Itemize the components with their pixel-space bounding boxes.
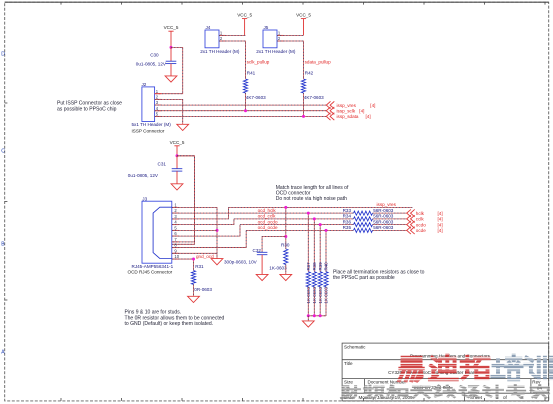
- off-page connector issp_sdata: [326, 113, 370, 120]
- ground rail wire: [307, 314, 326, 317]
- svg-text:1: 1: [278, 31, 281, 36]
- svg-text:3: 3: [174, 214, 177, 219]
- svg-text:R31: R31: [195, 264, 204, 269]
- svg-text:ocde: ocde: [416, 228, 426, 233]
- svg-text:to GND (Default) or keep them: to GND (Default) or keep them isolated.: [125, 321, 214, 327]
- net label ocd_hclk: [258, 208, 277, 213]
- wire net issp_sclk (J2 pin4): [155, 110, 327, 112]
- wire J4 pin1 to VCC_5: [219, 34, 246, 36]
- svg-text:2: 2: [220, 36, 223, 41]
- svg-text:sdata_pullup: sdata_pullup: [305, 59, 331, 64]
- J3 pin 10: [172, 254, 180, 259]
- J2 pin 5: [155, 112, 162, 117]
- off-page connector issp_sclk: [326, 107, 364, 114]
- wire net issp_sdata (J2 pin5): [155, 115, 327, 117]
- wire J3 pin3 jog to issp_vres: [172, 207, 228, 218]
- svg-text:gnd_ocd: gnd_ocd: [196, 254, 214, 259]
- title block: [342, 343, 549, 401]
- power symbol VCC_5 (C30): [164, 25, 179, 47]
- wire ocde to off-page: [373, 229, 407, 231]
- J2 pin 1: [155, 89, 162, 94]
- svg-text:J2: J2: [142, 82, 147, 87]
- wire R39 to ground rail: [319, 287, 321, 316]
- svg-text:VCC_5: VCC_5: [170, 140, 185, 145]
- svg-text:56R-0603: 56R-0603: [373, 219, 394, 224]
- wire rail to ground: [307, 316, 309, 321]
- resistor R42 4K7-0603: [301, 71, 324, 101]
- svg-text:ocd_ocdo: ocd_ocdo: [258, 219, 278, 224]
- svg-text:8: 8: [174, 243, 177, 248]
- svg-text:D: D: [1, 52, 5, 58]
- svg-text:300p-0603, 10V: 300p-0603, 10V: [224, 259, 258, 264]
- J5 pin 1: [277, 31, 284, 36]
- resistor R30 1K-0603: [269, 242, 290, 270]
- connector J4 2x1 TH Header (M): [200, 25, 240, 54]
- svg-text:RJ45-AMP556341-1: RJ45-AMP556341-1: [132, 264, 174, 269]
- net label sclk_pullup: [247, 59, 270, 64]
- svg-text:hclk: hclk: [416, 211, 425, 216]
- J3 pin 1: [172, 203, 179, 208]
- svg-text:2x1 TH Header (M): 2x1 TH Header (M): [256, 49, 296, 54]
- ground (R31): [188, 296, 200, 302]
- wire net issp_vres (OCD): [228, 206, 412, 208]
- svg-text:R42: R42: [305, 71, 314, 76]
- svg-text:R36: R36: [343, 219, 352, 224]
- svg-text:ocdo: ocdo: [416, 222, 426, 227]
- net label gnd_ocd: [196, 254, 214, 259]
- ground (termination bank): [302, 321, 314, 327]
- off-page connector ocd_ocde: [407, 227, 443, 234]
- svg-text:[4]: [4]: [366, 114, 371, 119]
- ground (J2 pin2): [177, 124, 189, 130]
- capacitor C30: [136, 47, 177, 76]
- svg-text:9: 9: [174, 248, 177, 253]
- wire C32 riser: [262, 237, 286, 253]
- J3 pin 7: [172, 237, 179, 242]
- svg-text:ocd_cclk: ocd_cclk: [258, 214, 277, 219]
- svg-text:R34: R34: [343, 214, 352, 219]
- wire J3 pin6 jog to ocd_ocdo: [172, 225, 240, 236]
- svg-text:C31: C31: [158, 162, 167, 167]
- svg-text:7: 7: [174, 237, 177, 242]
- wire R30 riser (issp_vres to R30): [284, 206, 287, 249]
- off-page connector ocd_cclk: [407, 215, 443, 222]
- resistor R39 1K-0603: [318, 262, 323, 304]
- svg-text:cclk: cclk: [416, 217, 425, 222]
- wire J5 pin1 to VCC_5: [277, 34, 304, 36]
- svg-text:1: 1: [156, 89, 159, 94]
- wire riser R40: [325, 229, 328, 272]
- wire net issp_vres (J2 pin3): [155, 104, 327, 106]
- svg-text:[4]: [4]: [438, 228, 443, 233]
- J3 pin 4: [172, 220, 179, 225]
- svg-text:ISSP Connector: ISSP Connector: [132, 129, 165, 134]
- wire J3 pin10 net gnd_ocd: [172, 258, 194, 260]
- J2 pin 3: [155, 100, 162, 105]
- watermark: [342, 356, 552, 399]
- wire cclk to off-page: [373, 218, 407, 220]
- svg-text:2: 2: [278, 36, 281, 41]
- svg-text:OCD RJ45 Connector: OCD RJ45 Connector: [128, 270, 173, 275]
- svg-text:0u1-0805, 12V: 0u1-0805, 12V: [128, 173, 159, 178]
- J3 pin 8: [172, 243, 179, 248]
- wire J3 pin1 to ground riser: [172, 207, 217, 258]
- svg-text:1: 1: [174, 203, 177, 208]
- svg-text:issp_vres: issp_vres: [337, 103, 357, 108]
- wire J5 pin2 to R42: [277, 41, 304, 79]
- svg-text:Rev: Rev: [532, 380, 541, 385]
- svg-text:4K7-0603: 4K7-0603: [246, 95, 266, 100]
- resistor R38 1K-0603: [312, 262, 317, 304]
- svg-text:VCC_5: VCC_5: [237, 13, 252, 18]
- J3 pin 9: [172, 248, 179, 253]
- resistor R37 1K-0603: [306, 262, 311, 304]
- svg-text:J3: J3: [142, 197, 147, 202]
- svg-text:[4]: [4]: [438, 211, 443, 216]
- svg-text:0u1-0805, 12V: 0u1-0805, 12V: [136, 61, 167, 66]
- junction C31/VCC: [176, 154, 179, 157]
- power symbol VCC_5 (C31): [170, 140, 185, 156]
- wire R41 to issp_sclk: [244, 93, 247, 112]
- wire R37 to ground rail: [307, 287, 309, 316]
- svg-text:J4: J4: [206, 25, 211, 30]
- svg-text:[4]: [4]: [359, 108, 364, 113]
- svg-text:0R-0603: 0R-0603: [194, 287, 212, 292]
- svg-text:VCC_5: VCC_5: [164, 25, 179, 30]
- svg-text:1K-0603: 1K-0603: [269, 265, 287, 270]
- off-page connector ocd_ocdo: [407, 221, 443, 228]
- J3 pin 3: [172, 214, 179, 219]
- resistor R31 0R-0603: [191, 264, 212, 292]
- note: place termination resistors close: [333, 269, 425, 281]
- svg-text:Schematic: Schematic: [344, 344, 366, 349]
- svg-text:VCC_5: VCC_5: [296, 13, 311, 18]
- svg-text:R39: R39: [318, 262, 323, 271]
- svg-text:the PPSoC part as possible: the PPSoC part as possible: [333, 275, 395, 281]
- J3 pin 6: [172, 231, 179, 236]
- svg-text:2: 2: [174, 208, 177, 213]
- wire hclk to off-page: [373, 212, 407, 214]
- J5 pin 2: [277, 36, 284, 41]
- svg-text:R41: R41: [247, 71, 256, 76]
- svg-text:[4]: [4]: [438, 222, 443, 227]
- svg-text:4: 4: [174, 220, 177, 225]
- svg-text:3: 3: [156, 100, 159, 105]
- off-page connector ocd_hclk: [407, 209, 443, 216]
- wire J3 pin4 jog to ocd_cclk: [172, 219, 234, 225]
- wire VCC junction to J2 pin1: [155, 47, 183, 93]
- svg-text:J5: J5: [264, 25, 269, 30]
- svg-text:4: 4: [156, 106, 159, 111]
- J2 pin 4: [155, 106, 162, 111]
- svg-text:1: 1: [220, 31, 223, 36]
- svg-text:5: 5: [174, 225, 177, 230]
- wire net ocd_ocdo: [240, 224, 354, 226]
- wire R30 to ground: [285, 265, 287, 275]
- svg-text:R30: R30: [281, 242, 290, 247]
- resistor R40 1K-0603: [324, 262, 329, 304]
- resistor R36 56R-0603: [343, 219, 394, 226]
- wire ocdo to off-page: [373, 224, 407, 226]
- svg-text:56R-0603: 56R-0603: [373, 225, 394, 230]
- svg-text:C: C: [1, 149, 5, 155]
- note: match trace length: [276, 185, 349, 202]
- svg-text:4K7-0603: 4K7-0603: [304, 95, 324, 100]
- J4 pin 1: [219, 31, 226, 36]
- wire net ocd_ocde: [246, 229, 353, 231]
- capacitor C32 300p-0603: [224, 248, 267, 274]
- resistor R41 4K7-0603: [243, 71, 266, 101]
- ground (C31): [171, 184, 183, 190]
- note: Put ISSP Connector close to PPSoC: [57, 101, 122, 113]
- svg-text:sclk_pullup: sclk_pullup: [247, 59, 270, 64]
- ground (R30): [280, 274, 292, 280]
- net label ocd_cclk: [258, 214, 277, 219]
- svg-text:10: 10: [174, 254, 179, 259]
- net label issp_vres: [377, 202, 397, 207]
- net label ocd_ocde: [258, 225, 278, 230]
- connector J2 5x1 TH Header (M): [132, 82, 172, 134]
- wire R38 to ground rail: [313, 287, 315, 316]
- svg-text:R37: R37: [306, 262, 311, 271]
- connector J5 2x1 TH Header (M): [256, 25, 296, 54]
- svg-text:6: 6: [174, 231, 177, 236]
- wire J4 pin2 to R41: [219, 41, 246, 79]
- svg-text:5: 5: [156, 112, 159, 117]
- wire R31 to ground: [193, 284, 195, 296]
- svg-text:56R-0603: 56R-0603: [373, 214, 394, 219]
- wire J3 pin9 to ground riser: [172, 252, 217, 254]
- power symbol VCC_5 (J5): [296, 13, 311, 36]
- svg-text:Size: Size: [344, 380, 353, 385]
- off-page connector issp_vres: [326, 101, 375, 108]
- wire gnd_ocd to R31: [192, 258, 195, 271]
- svg-text:5x1 TH Header (M): 5x1 TH Header (M): [132, 122, 172, 127]
- wire net ocd_cclk: [234, 218, 354, 220]
- svg-text:ocd_ocde: ocd_ocde: [258, 225, 278, 230]
- wire VCC to J3 pin8: [172, 156, 194, 245]
- junction C30/VCC: [170, 46, 173, 49]
- svg-text:ocd_hclk: ocd_hclk: [258, 208, 277, 213]
- wire VCC riser to J3 pin7: [172, 156, 194, 242]
- wire net ocd_hclk (J3 pin2): [172, 212, 354, 214]
- svg-text:[4]: [4]: [370, 103, 375, 108]
- J4 pin 2: [219, 36, 226, 41]
- J3 pin 5: [172, 225, 179, 230]
- svg-text:R35: R35: [343, 225, 352, 230]
- svg-text:Title: Title: [344, 361, 353, 366]
- wire J2 pin2 to ground: [155, 99, 183, 124]
- J3 pin 2: [172, 208, 179, 213]
- note: pins 9 and 10 studs: [125, 310, 225, 327]
- svg-text:issp_sclk: issp_sclk: [337, 108, 356, 113]
- svg-text:2: 2: [156, 94, 159, 99]
- wire J3 pin5 to ground riser: [172, 229, 217, 231]
- wire R40 to ground rail: [325, 287, 327, 316]
- junction pin1 riser / pin5: [216, 229, 219, 232]
- ground (J3 studs): [211, 259, 223, 265]
- net label ocd_ocdo: [258, 219, 278, 224]
- ground (C30): [165, 76, 177, 82]
- svg-text:[4]: [4]: [438, 217, 443, 222]
- resistor R35 56R-0603: [343, 225, 394, 232]
- wire R42 to issp_sdata: [302, 93, 305, 118]
- svg-text:Do not route via high noise pa: Do not route via high noise path: [276, 196, 347, 202]
- svg-text:issp_vres: issp_vres: [377, 202, 397, 207]
- connector J3 RJ45: [128, 197, 174, 275]
- capacitor C31: [128, 156, 183, 184]
- svg-text:R33: R33: [343, 208, 352, 213]
- svg-text:as possible to PPSoC chip: as possible to PPSoC chip: [57, 107, 117, 113]
- svg-text:issp_sdata: issp_sdata: [337, 114, 359, 119]
- wire riser R38: [313, 217, 316, 271]
- J2 pin 2: [155, 94, 162, 99]
- svg-text:R40: R40: [324, 262, 329, 271]
- svg-text:C30: C30: [150, 52, 159, 57]
- resistor R34 56R-0603: [343, 214, 394, 221]
- svg-text:of: of: [503, 395, 508, 400]
- wire J3 pin8 jog to ocd_ocde: [172, 230, 246, 247]
- power symbol VCC_5 (J4): [237, 13, 252, 36]
- svg-text:R38: R38: [312, 262, 317, 271]
- wire riser R37: [307, 212, 310, 272]
- svg-text:56R-0603: 56R-0603: [373, 208, 394, 213]
- net label sdata_pullup: [305, 59, 331, 64]
- wire riser R39: [319, 223, 322, 272]
- ground (C32): [256, 274, 268, 280]
- resistor R33 56R-0603: [343, 208, 394, 215]
- svg-text:2x1 TH Header (M): 2x1 TH Header (M): [200, 49, 240, 54]
